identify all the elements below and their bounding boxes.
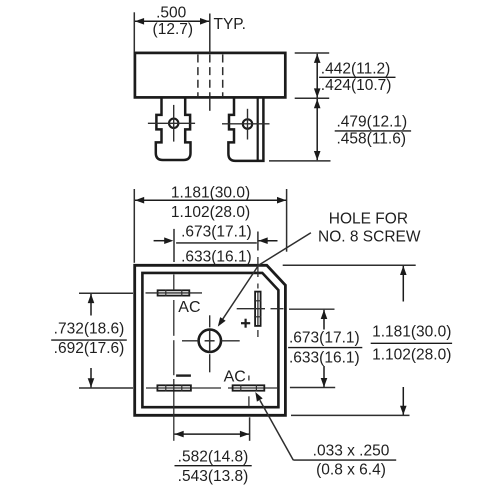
svg-text:.732(18.6): .732(18.6) bbox=[54, 321, 125, 338]
bottom view: center mounting hole bbox=[199, 330, 221, 352]
side view: left tab terminal outline bbox=[156, 97, 191, 160]
side view: hidden center terminal (dashed lines) bbox=[198, 55, 223, 97]
bottom view: left slots vertical centerline bbox=[173, 275, 175, 441]
dimension .582/.543 (bottom) extension lines bbox=[249, 417, 251, 441]
dimension 1.181/1.102 (right) arrows bbox=[402, 266, 404, 302]
bottom view: bottom-right slot vertical centerline bbox=[248, 376, 250, 407]
bottom view: bottom-left slot bbox=[157, 385, 191, 390]
svg-text:.458(11.6): .458(11.6) bbox=[337, 131, 407, 148]
bottom view: inner body outline with chamfer bbox=[142, 273, 278, 407]
dimension .500 extension line (left) bbox=[133, 12, 135, 52]
dimension 1.181/1.102 (top) arrow line bbox=[135, 199, 286, 201]
svg-text:HOLE FOR: HOLE FOR bbox=[329, 210, 408, 227]
bottom view: outer body outline with chamfer bbox=[135, 265, 286, 415]
bottom view: plus slot horizontal centerline bbox=[237, 308, 335, 311]
dimension .582/.543 (bottom) arrow line bbox=[175, 433, 250, 435]
bottom view: top-left slot horizontal centerline bbox=[146, 292, 203, 294]
side view: right tab hole bbox=[243, 119, 252, 128]
side view: right tab terminal outline bbox=[228, 97, 263, 161]
svg-text:1.181(30.0): 1.181(30.0) bbox=[372, 323, 451, 340]
svg-text:.543(13.8): .543(13.8) bbox=[178, 468, 249, 485]
bottom view: plus slot vertical centerline bbox=[257, 257, 259, 337]
label + (plus terminal) bbox=[241, 319, 250, 328]
dimension 1.181/1.102 (right) extension lines bbox=[283, 265, 416, 415]
dimension 1.181/1.102 (top) extension lines bbox=[134, 189, 286, 263]
svg-text:.033 x .250: .033 x .250 bbox=[313, 442, 390, 459]
dimension .442/.424 arrow line bbox=[316, 54, 318, 98]
dimension .673/.633 (top) arrows bbox=[154, 240, 165, 242]
dimension .479/.458 arrow line bbox=[316, 99, 318, 160]
bottom view: bottom-right AC slot bbox=[233, 385, 265, 390]
label - (minus terminal) bbox=[176, 374, 191, 376]
dimension .732/.692 (left) arrows bbox=[90, 294, 92, 316]
svg-text:.673(17.1): .673(17.1) bbox=[181, 224, 252, 241]
bottom view: top-left AC slot bbox=[158, 290, 190, 295]
dimension .673/.633 (right) arrows bbox=[323, 310, 325, 330]
dimension .673/.633 (right) extension line (bottom) bbox=[290, 387, 335, 389]
leader line from screw note to hole bbox=[222, 233, 311, 321]
svg-text:.692(17.6): .692(17.6) bbox=[54, 340, 125, 357]
svg-text:1.181(30.0): 1.181(30.0) bbox=[171, 185, 250, 202]
side view: package body outline bbox=[135, 53, 285, 98]
leader line from slot size note to bottom-right slot bbox=[260, 400, 293, 460]
side view: right tab inner edge bbox=[257, 97, 259, 161]
bottom view: plus slot (vertical) bbox=[255, 292, 261, 326]
svg-text:1.102(28.0): 1.102(28.0) bbox=[171, 204, 250, 221]
svg-text:.442(11.2): .442(11.2) bbox=[321, 61, 391, 78]
bottom view: bottom slots horizontal centerline bbox=[146, 387, 277, 389]
svg-text:.582(14.8): .582(14.8) bbox=[178, 448, 249, 465]
dimension .500 arrow line bbox=[135, 20, 209, 22]
svg-text:AC: AC bbox=[178, 299, 200, 316]
bottom view: hole centermark cross bbox=[205, 330, 215, 352]
side view: right tab hole centerlines bbox=[222, 109, 270, 140]
side view: centerline through hidden terminal bbox=[209, 14, 211, 111]
svg-text:NO. 8 SCREW: NO. 8 SCREW bbox=[318, 229, 421, 246]
side view: left tab hole bbox=[169, 119, 178, 128]
svg-text:(0.8 x 6.4): (0.8 x 6.4) bbox=[316, 462, 386, 479]
dimension .442/.424 extension lines bbox=[269, 53, 331, 161]
dimension .673/.633 (top) extension lines bbox=[174, 229, 258, 262]
svg-text:.633(16.1): .633(16.1) bbox=[181, 249, 252, 266]
svg-text:.673(17.1): .673(17.1) bbox=[289, 330, 360, 347]
svg-text:(12.7): (12.7) bbox=[153, 21, 194, 38]
bottom view: hole crosshair centerlines bbox=[182, 315, 240, 372]
dimension .732/.692 (left) extension lines bbox=[79, 293, 133, 388]
svg-text:1.102(28.0): 1.102(28.0) bbox=[372, 347, 451, 364]
svg-text:.479(12.1): .479(12.1) bbox=[337, 114, 408, 131]
svg-text:TYP.: TYP. bbox=[214, 16, 246, 33]
svg-text:.500: .500 bbox=[156, 5, 187, 22]
svg-text:AC: AC bbox=[224, 369, 246, 386]
side view: left tab hole centerlines bbox=[148, 105, 195, 142]
svg-text:.633(16.1): .633(16.1) bbox=[289, 349, 360, 366]
svg-text:.424(10.7): .424(10.7) bbox=[321, 77, 392, 94]
